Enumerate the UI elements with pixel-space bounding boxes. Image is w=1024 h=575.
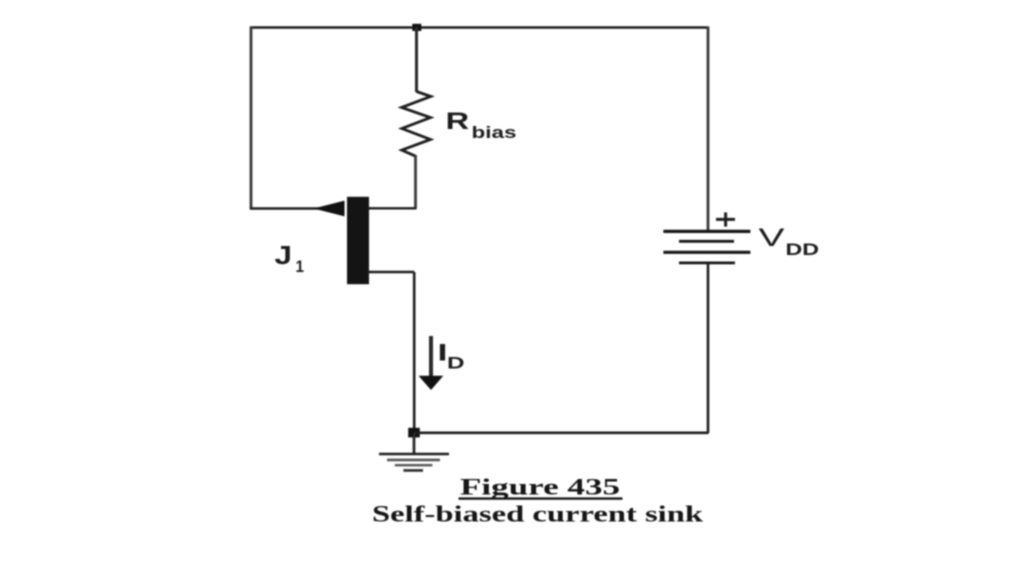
gate arrowhead of JFET J1 (314, 201, 345, 217)
svg-text:Self-biased current sink: Self-biased current sink (372, 502, 704, 528)
ground symbol (379, 453, 449, 456)
wire: resistor top lead (415, 27, 418, 92)
wire: top rail from left branch to V_DD branch (250, 26, 709, 29)
resistor Rbias zigzag body (402, 92, 431, 157)
wire: ground stub (413, 433, 416, 454)
svg-text:J: J (275, 240, 293, 270)
svg-text:V: V (759, 224, 785, 252)
svg-text:D: D (447, 355, 465, 373)
svg-text:bias: bias (472, 123, 517, 142)
transistor J1 channel bar (347, 197, 369, 284)
node: top junction dot at resistor branch (412, 24, 421, 31)
wire: gate lead from left rail to arrow (250, 207, 320, 209)
node: bottom junction dot at ground (408, 428, 420, 438)
current arrow ID (429, 336, 433, 378)
wire: right vertical from battery - plate to bottom rail (707, 263, 710, 433)
wire: source vertical lead down to ground node (413, 272, 416, 433)
wire: source connection from channel to down lead (367, 271, 414, 273)
wire: drain connection from resistor lead to JFET channel (367, 207, 417, 209)
wire: resistor bottom lead down to drain level (414, 155, 417, 209)
svg-text:DD: DD (786, 241, 820, 259)
battery VDD plates (663, 230, 750, 233)
wire: left vertical (gate feedback) (250, 27, 253, 210)
svg-text:I: I (438, 340, 448, 367)
svg-text:1: 1 (296, 257, 305, 276)
svg-text:Figure 435: Figure 435 (460, 475, 620, 500)
wire: bottom rail from ground node to V_DD branch (414, 431, 709, 434)
battery + polarity mark (716, 218, 735, 221)
svg-text:R: R (446, 108, 470, 135)
wire: right vertical from top rail to battery + plate (707, 27, 710, 231)
